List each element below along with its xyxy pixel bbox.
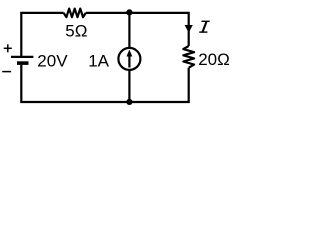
battery V1 long plate (11, 56, 33, 58)
label I current (italic serif, hand-drawn) (199, 21, 210, 33)
plus sign (4, 44, 12, 52)
node junction dot bottom (126, 99, 132, 105)
resistor R1 zigzag 5ohm (64, 9, 86, 18)
wire middle branch top (128, 13, 130, 48)
wire right-bottom segment (21, 65, 188, 102)
node junction dot top (126, 9, 132, 15)
wire middle branch bottom (128, 70, 130, 102)
current source U1 circle (118, 48, 140, 70)
current I arrowhead on right wire (185, 25, 193, 33)
current source arrow (128, 55, 130, 68)
svg-text:5Ω: 5Ω (65, 22, 87, 41)
svg-text:1A: 1A (88, 51, 109, 70)
resistor R2 zigzag 20ohm (183, 46, 194, 68)
battery V1 short plate (17, 61, 29, 65)
svg-text:20Ω: 20Ω (198, 50, 230, 69)
wire top-right segment (86, 13, 189, 46)
wire top-left segment (21, 13, 63, 56)
svg-text:20V: 20V (37, 51, 68, 70)
minus sign (2, 71, 11, 73)
